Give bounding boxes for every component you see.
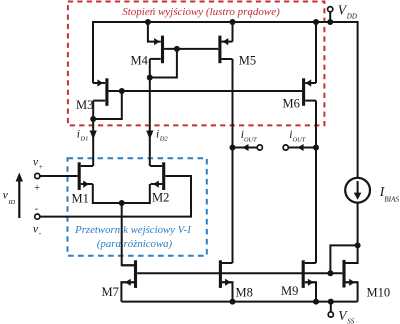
- svg-text:OUT: OUT: [244, 136, 257, 143]
- current arrow i_D1: [77, 128, 97, 142]
- wire M5 source riser: [232, 22, 234, 42]
- svg-text:+: +: [34, 183, 40, 194]
- svg-text:D2: D2: [159, 136, 169, 143]
- svg-text:M10: M10: [367, 286, 391, 300]
- wire I_BIAS to M10 drain node: [357, 203, 359, 246]
- terminal v+: [35, 173, 40, 178]
- current arrow i_D2: [146, 128, 168, 142]
- wire VSS rail: [121, 301, 357, 303]
- transistor M4: [131, 22, 163, 68]
- svg-text:(para różnicowa): (para różnicowa): [97, 238, 173, 250]
- terminal i_OUT 1: [241, 129, 263, 151]
- wire M5 drain column to M8 drain: [232, 59, 234, 263]
- svg-text:-: -: [35, 203, 38, 214]
- wire i_OUT terminal 2: [288, 147, 316, 149]
- terminal i_OUT 2: [283, 129, 306, 151]
- wire M6 source riser: [315, 22, 317, 83]
- svg-text:M2: M2: [152, 191, 169, 205]
- wire M3 diode tie: [93, 91, 122, 119]
- svg-text:ID: ID: [7, 199, 15, 206]
- svg-text:M4: M4: [131, 54, 149, 68]
- wire M8 source drop: [222, 282, 233, 301]
- red dashed box (output stage / current mirror): [68, 2, 325, 126]
- wire M10 drain lead: [346, 245, 358, 263]
- transistor M10: [344, 260, 390, 300]
- current source I_BIAS: [345, 178, 399, 204]
- svg-text:M1: M1: [72, 192, 89, 206]
- terminal VSS: [328, 312, 333, 317]
- wire M7 source to VSS: [121, 282, 133, 301]
- transistor M7: [102, 260, 136, 299]
- svg-text:-: -: [39, 229, 42, 238]
- svg-text:BIAS: BIAS: [384, 195, 399, 203]
- wire M6 drain column to M9 drain: [315, 101, 317, 263]
- wire i_D2 vertical (M4 drain to M2 drain): [149, 59, 151, 166]
- transistor M9: [281, 260, 316, 298]
- wire VDD top rail: [93, 22, 358, 178]
- svg-text:M7: M7: [102, 285, 119, 299]
- terminal VDD: [328, 7, 333, 12]
- wire VDD terminal drop: [329, 12, 331, 22]
- svg-text:M9: M9: [281, 284, 298, 298]
- transistor M6: [283, 78, 317, 110]
- wire NMOS gate bus M7-M10: [137, 272, 342, 274]
- wire tail to M7 drain: [122, 203, 134, 265]
- wire M4 diode tie: [150, 49, 177, 78]
- wire v+ input to M1 gate: [40, 175, 78, 177]
- wire i_D1 vertical (M3 drain to M1 drain): [92, 101, 94, 166]
- wire M2 gate to v- input: [40, 176, 191, 217]
- wire M9 source drop: [305, 282, 316, 301]
- svg-text:Przetwornik wejściowy V-I: Przetwornik wejściowy V-I: [74, 224, 192, 236]
- arrow v_ID: [3, 173, 23, 219]
- transistor M2: [150, 162, 169, 204]
- svg-text:DD: DD: [346, 12, 357, 20]
- wire differential pair source node: [93, 184, 150, 203]
- svg-text:M5: M5: [239, 54, 256, 68]
- transistor M3: [76, 78, 107, 112]
- wire M9 drain riser: [305, 262, 316, 264]
- wire i_OUT terminal 1: [233, 147, 258, 149]
- wire M10 source drop: [346, 282, 358, 301]
- svg-text:SS: SS: [347, 318, 355, 324]
- svg-text:M8: M8: [236, 286, 253, 300]
- wire M10 diode tie: [330, 245, 357, 273]
- svg-text:M3: M3: [76, 98, 93, 112]
- transistor M1: [72, 162, 94, 205]
- svg-text:Stopień wyjściowy (lustro prąd: Stopień wyjściowy (lustro prądowe): [122, 6, 280, 18]
- wire M8 drain riser: [222, 262, 233, 264]
- wire W1 gate line M3-M6: [109, 90, 303, 92]
- wire VSS terminal drop: [330, 302, 332, 312]
- svg-text:M6: M6: [283, 97, 300, 111]
- svg-text:OUT: OUT: [293, 136, 306, 143]
- transistor M8: [220, 260, 252, 299]
- blue dashed box (input V-I converter / differential pair): [68, 158, 207, 256]
- svg-text:D1: D1: [79, 136, 88, 143]
- wire gate bus M4-M5: [164, 48, 218, 50]
- transistor M5: [220, 36, 256, 68]
- terminal v-: [35, 214, 40, 219]
- svg-text:+: +: [39, 162, 43, 171]
- node: junction dots: [90, 19, 360, 305]
